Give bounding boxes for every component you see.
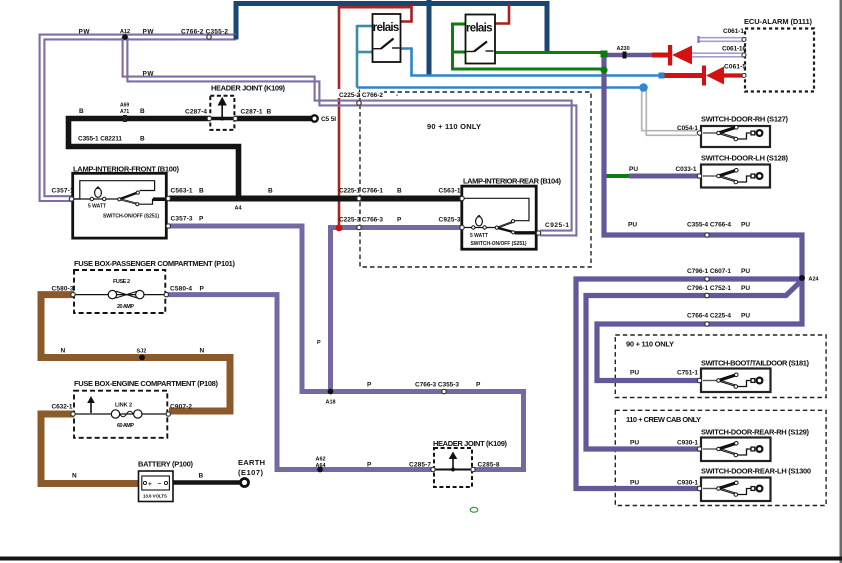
junction red dot (P-wire node) (336, 225, 343, 232)
svg-text:B: B (268, 188, 273, 195)
svg-text:N: N (200, 348, 205, 355)
connector C285-8 (471, 462, 500, 472)
wire red: feed to relay 1 (401, 4, 412, 22)
wire PW: lamp-front C357-1 to A12 / navy junction (40, 35, 236, 201)
connector C355-3/C766-3 (367, 382, 481, 394)
fusible link LINK 2 60 AMP (75, 396, 166, 429)
wire PU: alarm node down, C355-4 run, A24, C225-4 run to boot/taildoor switch (597, 55, 802, 381)
svg-text:C225-3 C766-3: C225-3 C766-3 (339, 217, 383, 224)
svg-text:B: B (140, 108, 145, 115)
connector C563-1 (rear) (439, 188, 465, 201)
lamp B104 LAMP-INTERIOR-REAR box (462, 177, 562, 250)
dashed box ECU-ALARM (D111) (744, 17, 814, 92)
connector C355-4/C766-4 (628, 222, 750, 238)
connector C796-1/C607-1 (687, 268, 750, 281)
svg-text:A24: A24 (809, 277, 820, 283)
wire green: relay 2 output to alarm node (495, 51, 601, 54)
svg-text:P: P (397, 217, 402, 224)
svg-text:FUSE 2: FUSE 2 (113, 279, 130, 285)
connector C925-3 (439, 217, 465, 230)
svg-text:110 + CREW CAB ONLY: 110 + CREW CAB ONLY (626, 415, 701, 424)
junction blue square (diode node) (659, 73, 665, 79)
svg-text:ECU-ALARM (D111): ECU-ALARM (D111) (744, 17, 813, 26)
svg-text:C061-16: C061-16 (722, 45, 746, 52)
svg-text:A12: A12 (120, 29, 130, 35)
svg-text:PW: PW (143, 29, 155, 36)
svg-text:SWITCH-DOOR-REAR-LH (S1300: SWITCH-DOOR-REAR-LH (S1300 (701, 467, 811, 476)
connector C061-16 (722, 45, 746, 57)
svg-text:C751-1: C751-1 (677, 370, 698, 377)
svg-text:FUSE BOX-ENGINE COMPARTMENT (P: FUSE BOX-ENGINE COMPARTMENT (P108) (74, 379, 219, 388)
node A4 (235, 206, 243, 212)
wire P: A18 riser to lamp rear C925-3 (331, 228, 462, 392)
terminal C5 5I (311, 115, 336, 123)
svg-text:B: B (79, 108, 84, 115)
connector C225-1/C766-1 (339, 188, 402, 201)
switch S181 SWITCH-BOOT/TAILDOOR (701, 359, 810, 393)
diode D2: blue node to C061-5 (664, 66, 744, 86)
svg-text:A71: A71 (120, 109, 129, 115)
dashed box 90 + 110 ONLY (boot/taildoor) (615, 335, 826, 398)
wire PU: C752-1 run from A24 to door-rear-RH switch (586, 282, 801, 450)
svg-text:C796-1 C752-1: C796-1 C752-1 (687, 285, 731, 292)
svg-text:SWITCH-DOOR-RH (S127): SWITCH-DOOR-RH (S127) (701, 115, 789, 124)
relay U1 (relais) (373, 14, 401, 62)
svg-text:C357-3: C357-3 (171, 216, 193, 223)
frame bottom line (0, 557, 842, 561)
svg-text:C285-7: C285-7 (409, 462, 431, 469)
header joint K109 (top) (210, 84, 285, 130)
wire blue: node line to door-RH branch dot (357, 86, 641, 89)
svg-text:B: B (397, 188, 402, 195)
svg-text:+: + (148, 481, 152, 488)
connector C033-1 (629, 166, 702, 178)
junction A230 connector (617, 46, 630, 59)
lamp B100 LAMP-INTERIOR-FRONT box (73, 165, 180, 239)
wire P: fuse 2 output loop to header joint 2 (165, 295, 433, 470)
earth E107 terminal (238, 458, 265, 487)
diode D1: alarm node to C061-16 (604, 45, 744, 66)
wire blue: relay 1 left side vertical (357, 25, 373, 88)
svg-text:C355-4 C766-4: C355-4 C766-4 (687, 222, 731, 229)
svg-text:C580-3: C580-3 (52, 286, 74, 293)
wire gray: door-RH switch feed (642, 90, 697, 135)
connector C796-1/C752-1 (687, 285, 750, 298)
svg-text:A64: A64 (316, 463, 327, 469)
wire P: header joint 2 output up to A18 line (169, 226, 524, 470)
svg-text:PU: PU (630, 480, 639, 487)
junction navy / PW node (234, 35, 239, 40)
svg-text:C563-1: C563-1 (171, 188, 193, 195)
svg-text:13.6 VOLTS: 13.6 VOLTS (143, 494, 167, 499)
wire black B: main feed with header joint K109 (69, 119, 312, 199)
svg-text:EARTH: EARTH (238, 458, 265, 467)
svg-text:A230: A230 (617, 46, 630, 52)
svg-text:C930-1: C930-1 (677, 480, 698, 487)
svg-text:N: N (72, 473, 77, 480)
svg-text:PW: PW (143, 71, 155, 78)
fuse box P101 FUSE BOX-PASSENGER COMPARTMENT (74, 259, 236, 313)
svg-text:P: P (476, 382, 481, 389)
svg-text:PW: PW (79, 29, 91, 36)
svg-text:P: P (367, 382, 372, 389)
connector C925-1 (536, 222, 569, 235)
svg-text:C355-1 C82211: C355-1 C82211 (78, 136, 122, 143)
svg-text:C061-5: C061-5 (724, 64, 746, 71)
svg-text:C5 5I: C5 5I (321, 116, 336, 123)
svg-text:PU: PU (741, 268, 750, 275)
svg-text:C930-1: C930-1 (677, 440, 698, 447)
svg-text:C766-3 C355-3: C766-3 C355-3 (415, 382, 459, 389)
connector C563-1 (front) (166, 188, 273, 201)
connector C357-1 (52, 188, 74, 202)
header joint K109 (bottom) (433, 439, 508, 487)
svg-text:HEADER JOINT (K109): HEADER JOINT (K109) (433, 439, 508, 448)
svg-text:A62: A62 (316, 457, 326, 463)
svg-text:PU: PU (630, 440, 639, 447)
junction A18 (326, 389, 336, 406)
wire navy: second vertical drop to blue node (427, 0, 432, 76)
connector C357-3 (166, 216, 204, 229)
svg-text:B: B (140, 136, 145, 143)
svg-text:C287-1: C287-1 (241, 109, 263, 116)
lamp B104 internal circuit (463, 198, 536, 247)
stray green ellipse mark (470, 507, 478, 512)
junction A12 (120, 29, 130, 40)
switch S128 SWITCH-DOOR-LH (701, 154, 789, 188)
svg-text:PU: PU (741, 222, 750, 229)
svg-text:C225-1 C766-1: C225-1 C766-1 (339, 188, 383, 195)
wire red: vertical to P-wire junction (339, 7, 412, 225)
connector C061-1 (723, 28, 746, 42)
svg-text:SWITCH-BOOT/TAILDOOR (S181): SWITCH-BOOT/TAILDOOR (S181) (701, 359, 810, 368)
svg-text:C925-3: C925-3 (439, 217, 461, 224)
svg-text:P: P (317, 340, 321, 346)
svg-text:C061-1: C061-1 (723, 28, 744, 35)
connector C225-3/C766-3 (339, 217, 402, 230)
fuse box P108 FUSE BOX-ENGINE COMPARTMENT (74, 379, 219, 438)
wire labels PW / N / B rows (61, 29, 322, 480)
svg-text:LAMP-INTERIOR-FRONT (B100): LAMP-INTERIOR-FRONT (B100) (73, 165, 180, 174)
wire green: relay 2 left side loop (453, 24, 602, 69)
svg-text:P: P (200, 286, 205, 293)
switch S129 SWITCH-DOOR-REAR-RH (701, 428, 810, 462)
svg-text:C907-2: C907-2 (170, 404, 192, 411)
connector C287-4 (185, 109, 212, 121)
connector C225-2/C766-2 (337, 89, 398, 105)
connector C766-4/C225-4 (687, 313, 750, 327)
switch S127 SWITCH-DOOR-RH (701, 115, 789, 148)
svg-text:PU: PU (741, 285, 750, 292)
wire lavender: ECU C061-1 stub (699, 36, 745, 43)
svg-text:-: - (396, 92, 398, 99)
svg-text:SJ2: SJ2 (137, 348, 147, 354)
wire brown N: link 2 to fuse 2 via SJ2 (41, 295, 230, 411)
svg-text:90 + 110 ONLY: 90 + 110 ONLY (427, 122, 481, 131)
svg-text:N: N (61, 348, 66, 355)
svg-text:5 WATT: 5 WATT (88, 204, 106, 210)
svg-text:90 + 110 ONLY: 90 + 110 ONLY (626, 340, 674, 349)
svg-text:SWITCH-DOOR-REAR-RH (S129): SWITCH-DOOR-REAR-RH (S129) (701, 428, 810, 437)
svg-text:C054-1: C054-1 (677, 125, 698, 132)
svg-text:C796-1 C607-1: C796-1 C607-1 (687, 268, 731, 275)
wire brown N: battery to link 2 (41, 414, 139, 484)
svg-text:C580-4: C580-4 (170, 286, 192, 293)
connector C907-2 (166, 404, 192, 417)
svg-text:BATTERY (P100): BATTERY (P100) (138, 460, 194, 469)
svg-text:PU: PU (741, 313, 750, 320)
connector C054-1 (677, 125, 702, 135)
dashed box 90 + 110 ONLY (around lamp-interior-rear) (360, 92, 591, 267)
svg-text:PU: PU (628, 222, 637, 229)
svg-text:A69: A69 (120, 103, 129, 109)
connector C287-1 (233, 109, 271, 121)
junction A24 (799, 275, 820, 283)
svg-text:C225-2 C766-2: C225-2 C766-2 (339, 92, 383, 99)
svg-text:C033-1: C033-1 (676, 166, 697, 173)
svg-text:PU: PU (630, 370, 639, 377)
svg-text:C563-1: C563-1 (439, 188, 461, 195)
connector C930-1 (rear LH) (630, 480, 702, 491)
wire black B: lamp front C563-1 to lamp rear C563-1 (169, 196, 461, 202)
wire red: feed to relay 2 (495, 4, 509, 24)
connector C061-5 (724, 64, 746, 78)
switch S1300 SWITCH-DOOR-REAR-LH (701, 467, 811, 502)
svg-text:20 AMP: 20 AMP (117, 304, 134, 310)
svg-text:P: P (367, 462, 372, 469)
wire blue: relay 1 output to diode C061-5 (401, 49, 660, 76)
connector C632-1 (52, 404, 76, 417)
svg-text:relais: relais (373, 22, 400, 34)
battery P100 (138, 460, 194, 502)
connector C930-1 (rear RH) (630, 440, 702, 452)
svg-text:C632-1: C632-1 (52, 404, 73, 411)
svg-text:(E107): (E107) (238, 468, 264, 477)
connector C580-3 (52, 286, 76, 297)
svg-text:C766-4 C225-4: C766-4 C225-4 (687, 313, 731, 320)
svg-text:LINK 2: LINK 2 (115, 402, 132, 408)
svg-text:5 WATT: 5 WATT (470, 233, 488, 239)
svg-text:SWITCH-ON/OFF (S251): SWITCH-ON/OFF (S251) (471, 241, 527, 247)
fuse F2 FUSE 2 20 AMP (75, 279, 164, 310)
wire PU: stub to switch-door-LH C033-1 (629, 174, 700, 179)
svg-text:SWITCH-ON/OFF (S251): SWITCH-ON/OFF (S251) (103, 213, 159, 219)
svg-text:LAMP-INTERIOR-REAR (B104): LAMP-INTERIOR-REAR (B104) (463, 177, 562, 186)
svg-text:A18: A18 (326, 400, 336, 406)
dashed box 110 + CREW CAB ONLY (615, 410, 826, 505)
wire PU: C607-1 run from A24 to door-rear-LH switch (576, 279, 800, 489)
svg-text:C925-1: C925-1 (545, 222, 569, 229)
svg-text:P: P (199, 216, 204, 223)
svg-text:C357-1: C357-1 (52, 188, 74, 195)
connector C766-2/C355-2 (181, 29, 228, 40)
connector C285-7 (367, 462, 435, 472)
relay U2 (relais) (466, 15, 496, 64)
lamp B100 internal circuit (74, 181, 167, 220)
svg-text:relais: relais (466, 23, 493, 35)
svg-text:FUSE BOX-PASSENGER COMPARTMENT: FUSE BOX-PASSENGER COMPARTMENT (P101) (74, 259, 236, 268)
svg-text:B: B (199, 188, 204, 195)
svg-text:PU: PU (629, 166, 638, 173)
svg-text:60 AMP: 60 AMP (117, 423, 134, 429)
svg-text:A4: A4 (235, 206, 243, 212)
wire green: stub to switch-door-LH (604, 174, 631, 178)
junction green square (alarm node) (601, 51, 608, 58)
svg-text:SWITCH-DOOR-LH (S128): SWITCH-DOOR-LH (S128) (701, 154, 789, 163)
junction blue dot (door-RH branch) (639, 83, 648, 92)
frame right edge bar (840, 0, 842, 563)
svg-text:−: − (158, 481, 162, 488)
svg-text:B: B (199, 473, 204, 480)
wire PW: A12 branch to lamp-interior-rear C925-1 (123, 37, 577, 235)
wire black B: battery to earth (173, 480, 240, 485)
svg-text:HEADER JOINT (K109): HEADER JOINT (K109) (211, 84, 286, 93)
svg-text:C287-4: C287-4 (185, 109, 207, 116)
connector A69 A71 (120, 103, 129, 123)
junction A62 A64 (316, 457, 327, 473)
junction green dot (600, 66, 607, 73)
connector C580-4 (164, 286, 204, 297)
junction SJ2 (137, 348, 147, 360)
wire navy: alarm feed top loop (236, 4, 547, 54)
svg-text:B: B (267, 109, 272, 116)
connector C751-1 (630, 370, 702, 383)
svg-text:C285-8: C285-8 (478, 462, 500, 469)
svg-text:C766-2 C355-2: C766-2 C355-2 (181, 29, 228, 36)
